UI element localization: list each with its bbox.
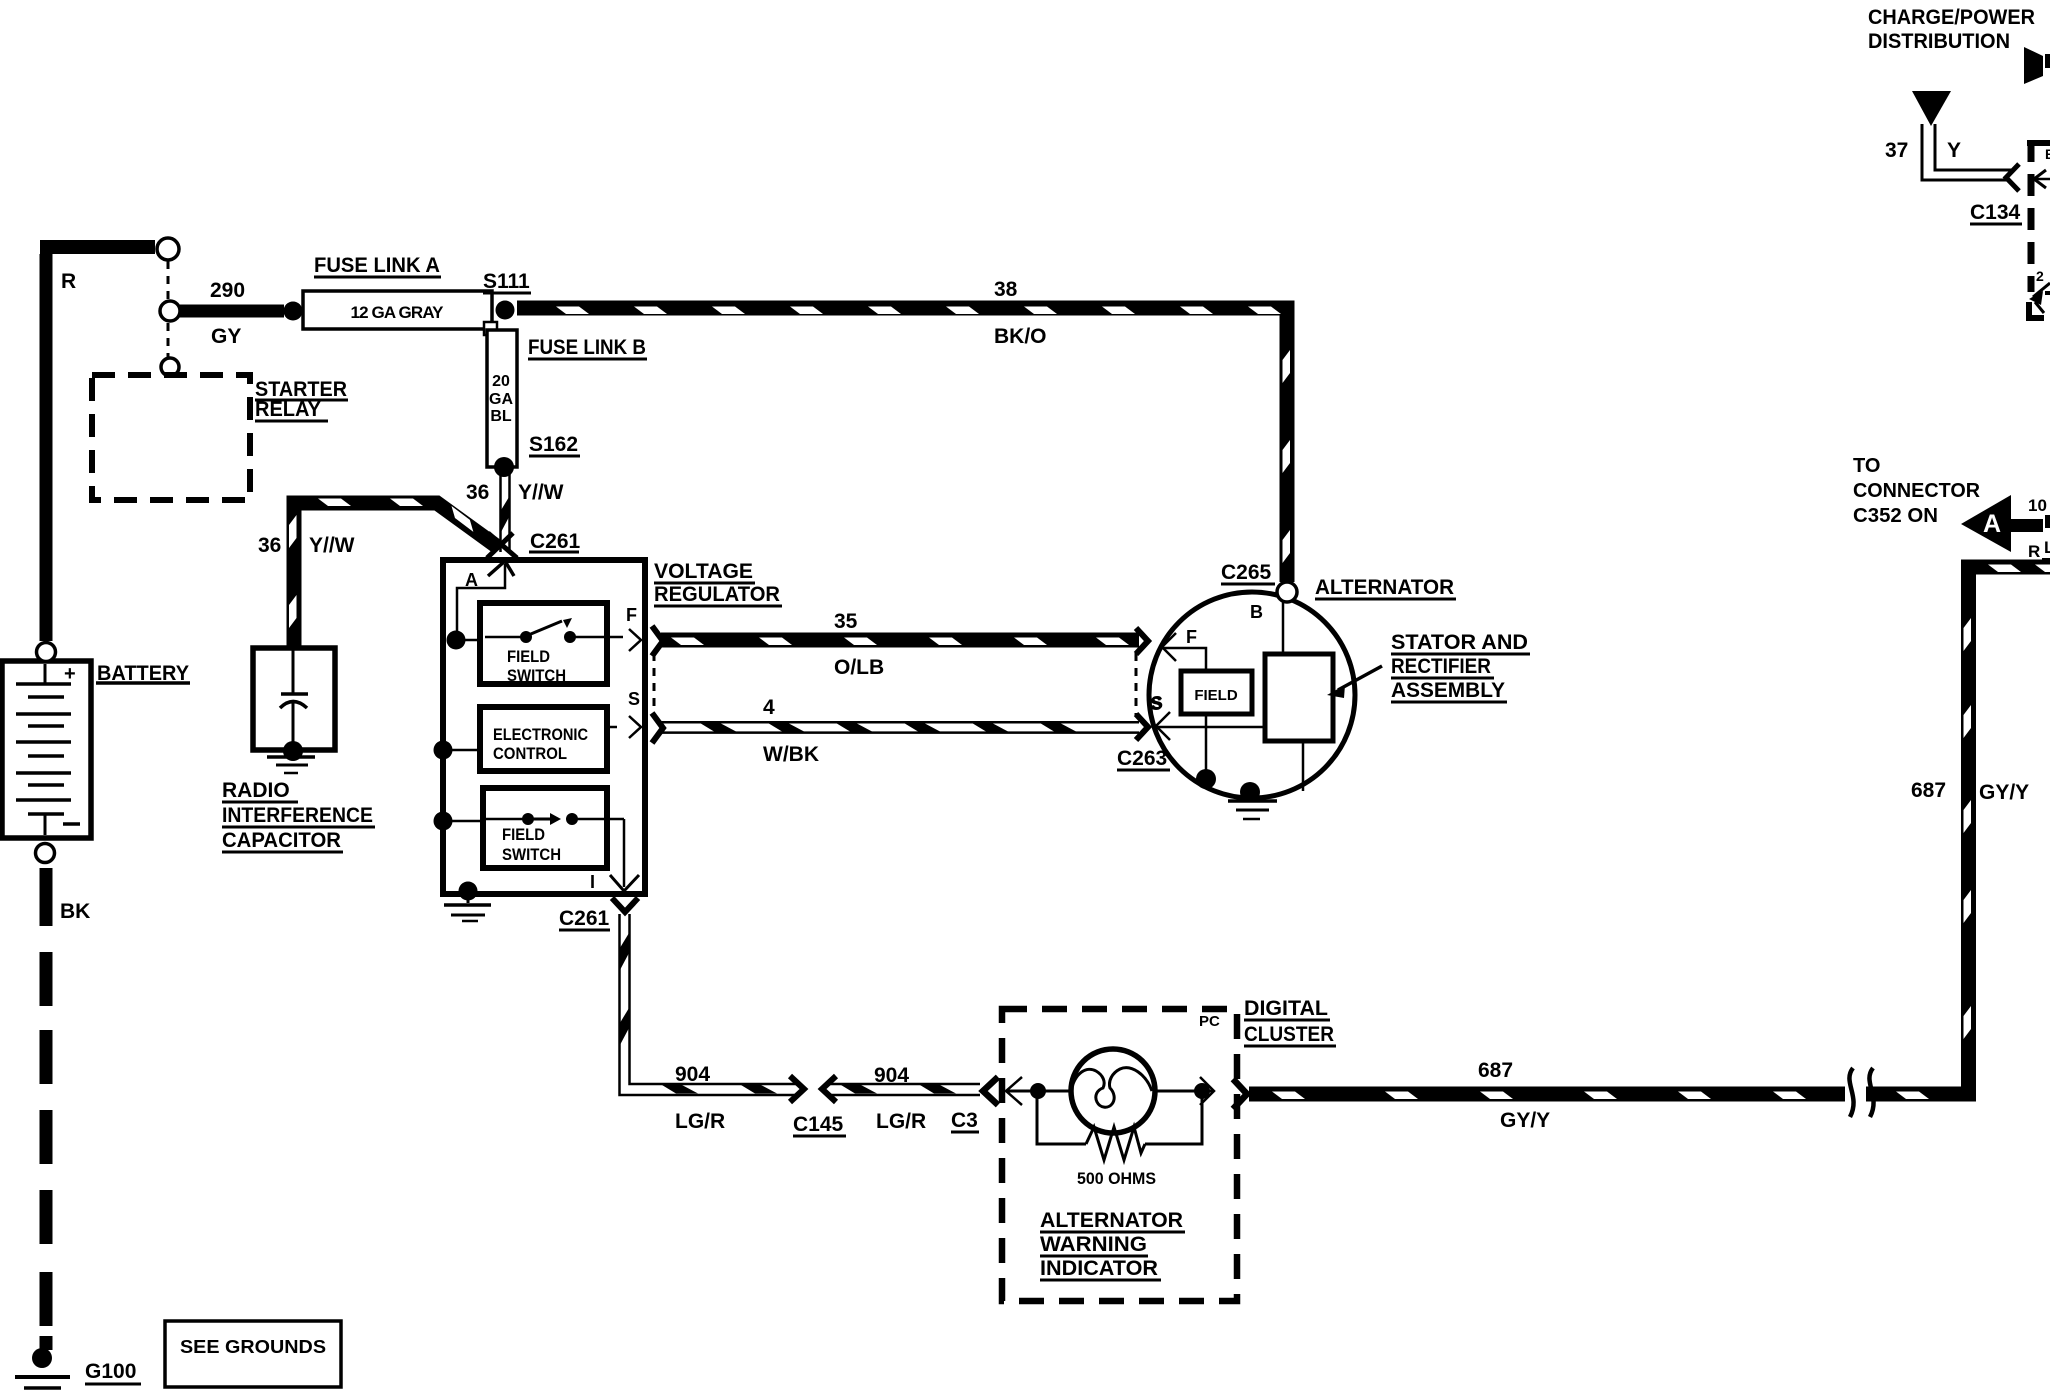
svg-text:A: A [1983,510,2001,538]
svg-text:DIGITAL: DIGITAL [1244,997,1328,1020]
svg-text:10: 10 [2028,496,2047,515]
svg-text:C352 ON: C352 ON [1853,505,1938,527]
svg-text:+: + [64,663,76,685]
svg-text:RELAY: RELAY [255,398,321,421]
svg-text:CLUSTER: CLUSTER [1244,1023,1334,1046]
svg-text:F: F [1186,627,1197,647]
svg-text:LG/R: LG/R [876,1110,926,1133]
svg-text:Y//W: Y//W [518,481,564,504]
svg-text:BK/O: BK/O [994,325,1047,348]
svg-text:500 OHMS: 500 OHMS [1077,1169,1156,1188]
svg-text:PC: PC [1199,1013,1220,1030]
svg-text:INDICATOR: INDICATOR [1040,1257,1158,1280]
svg-text:35: 35 [834,610,858,633]
svg-text:C3: C3 [951,1109,978,1132]
svg-text:FIELD: FIELD [507,647,550,666]
svg-text:FIELD: FIELD [502,825,545,844]
svg-text:38: 38 [994,278,1018,301]
svg-text:TO: TO [1853,455,1880,477]
svg-text:A: A [465,570,478,590]
svg-text:O/LB: O/LB [834,656,884,679]
svg-text:C261: C261 [559,907,610,930]
svg-text:VOLTAGE: VOLTAGE [654,560,753,583]
svg-text:CHARGE/POWER: CHARGE/POWER [1868,6,2035,29]
svg-text:SWITCH: SWITCH [502,845,561,864]
svg-text:RECTIFIER: RECTIFIER [1391,655,1491,678]
svg-text:GY: GY [211,325,241,348]
svg-text:C134: C134 [1970,201,2021,224]
svg-text:ASSEMBLY: ASSEMBLY [1391,679,1505,702]
svg-text:20: 20 [492,373,510,390]
svg-text:WARNING: WARNING [1040,1233,1147,1256]
svg-text:W/BK: W/BK [763,743,819,766]
svg-text:S: S [1151,693,1163,713]
svg-text:4: 4 [763,696,775,719]
svg-text:687: 687 [1478,1059,1513,1082]
svg-text:CONTROL: CONTROL [493,744,567,763]
svg-text:687: 687 [1911,779,1946,802]
svg-text:S162: S162 [529,433,578,456]
svg-text:STATOR AND: STATOR AND [1391,631,1528,654]
svg-text:S: S [628,689,640,709]
svg-text:CONNECTOR: CONNECTOR [1853,480,1981,502]
svg-text:R: R [2028,542,2040,561]
svg-text:L: L [2044,538,2050,557]
svg-text:SWITCH: SWITCH [507,666,566,685]
svg-text:FUSE LINK B: FUSE LINK B [528,336,646,359]
svg-text:36: 36 [258,534,281,557]
svg-text:Y: Y [1947,139,1961,162]
svg-text:RADIO: RADIO [222,779,290,802]
svg-text:12 GA GRAY: 12 GA GRAY [351,303,445,322]
svg-text:B: B [1250,602,1263,622]
svg-text:ELECTRONIC: ELECTRONIC [493,725,588,744]
svg-text:F: F [626,605,637,625]
svg-text:FIELD: FIELD [1194,687,1237,704]
svg-text:290: 290 [210,279,245,302]
svg-text:G100: G100 [85,1360,136,1383]
svg-text:C145: C145 [793,1113,844,1136]
svg-text:GY/Y: GY/Y [1500,1109,1550,1132]
svg-text:GA: GA [489,391,513,408]
svg-text:C265: C265 [1221,561,1272,584]
svg-text:BK: BK [60,900,90,923]
svg-text:ALTERNATOR: ALTERNATOR [1315,576,1454,599]
svg-text:2: 2 [2036,268,2044,284]
svg-text:I: I [590,872,595,892]
svg-text:FUSE LINK A: FUSE LINK A [314,254,440,277]
svg-text:C263: C263 [1117,747,1167,770]
svg-text:904: 904 [675,1063,710,1086]
svg-text:LG/R: LG/R [675,1110,725,1133]
svg-text:BL: BL [490,408,512,425]
svg-text:C261: C261 [530,530,581,553]
svg-text:37: 37 [1885,139,1908,162]
svg-text:Y//W: Y//W [309,534,355,557]
svg-text:CAPACITOR: CAPACITOR [222,829,341,852]
svg-text:REGULATOR: REGULATOR [654,583,780,606]
svg-text:904: 904 [874,1064,909,1087]
svg-text:B: B [2045,146,2050,162]
svg-text:S111: S111 [483,270,530,293]
svg-text:DISTRIBUTION: DISTRIBUTION [1868,30,2010,53]
svg-text:R: R [61,270,76,293]
svg-text:GY/Y: GY/Y [1979,781,2029,804]
svg-text:36: 36 [466,481,489,504]
svg-text:SEE GROUNDS: SEE GROUNDS [180,1336,326,1357]
svg-text:ALTERNATOR: ALTERNATOR [1040,1209,1183,1232]
svg-text:INTERFERENCE: INTERFERENCE [222,804,373,827]
